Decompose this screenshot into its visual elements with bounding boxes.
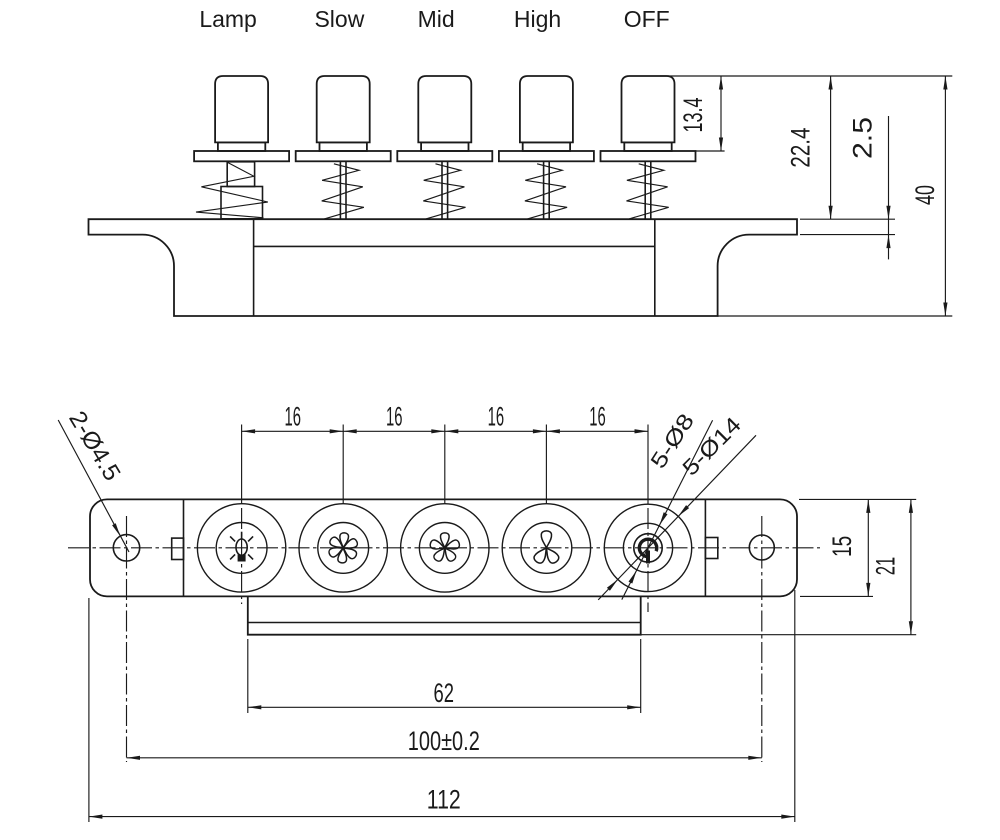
svg-text:16: 16 xyxy=(488,401,505,431)
svg-text:Lamp: Lamp xyxy=(199,6,257,32)
svg-text:13.4: 13.4 xyxy=(678,98,708,133)
svg-text:Slow: Slow xyxy=(314,6,364,32)
svg-text:100±0.2: 100±0.2 xyxy=(408,726,480,756)
svg-text:16: 16 xyxy=(386,401,403,431)
svg-text:112: 112 xyxy=(427,785,461,815)
svg-text:Mid: Mid xyxy=(418,6,455,32)
svg-text:40: 40 xyxy=(910,185,940,205)
svg-text:High: High xyxy=(514,6,561,32)
svg-text:22.4: 22.4 xyxy=(786,128,816,168)
svg-text:16: 16 xyxy=(589,401,606,431)
svg-text:62: 62 xyxy=(434,678,455,708)
svg-text:21: 21 xyxy=(871,557,901,576)
svg-text:OFF: OFF xyxy=(624,6,670,32)
svg-text:2.5: 2.5 xyxy=(848,117,878,159)
svg-text:16: 16 xyxy=(284,401,301,431)
svg-text:15: 15 xyxy=(827,536,857,557)
